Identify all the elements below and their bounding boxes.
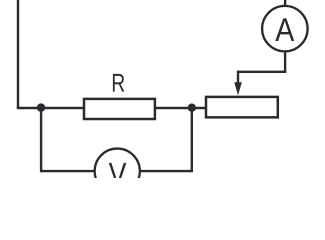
resistor R1 body	[84, 99, 155, 119]
wire: elbow horizontal to rheostat wiper	[238, 71, 286, 73]
voltmeter U2 circle	[95, 149, 140, 194]
label R value	[113, 74, 124, 92]
wire: ammeter top lead	[284, 0, 286, 28]
label V meter letter	[109, 163, 127, 185]
node junction right	[188, 104, 196, 112]
wire: wiper arrow shaft	[237, 71, 239, 84]
wire: ammeter bottom lead	[284, 30, 286, 72]
wire: voltmeter loop (down from left node, bottom run, up to right node)	[41, 108, 192, 171]
wire: main horizontal bus	[17, 107, 206, 109]
ammeter U1 circle	[262, 6, 308, 52]
wire: left vertical from top edge down to main bus	[17, 0, 19, 108]
rheostat RP body	[206, 97, 278, 117]
label A meter letter	[275, 18, 294, 41]
rheostat wiper arrowhead	[234, 82, 242, 95]
node junction left	[37, 103, 46, 112]
